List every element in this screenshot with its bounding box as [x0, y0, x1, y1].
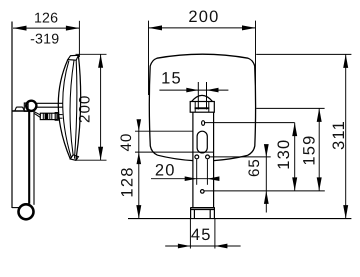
dimension 65 line	[265, 147, 267, 213]
dimension 200 top line	[149, 27, 256, 29]
dimension 159 line	[318, 108, 320, 190]
arm lower line	[37, 106, 63, 108]
rail bottom edge	[12, 207, 20, 209]
wire 20 left extension	[196, 159, 198, 185]
linkage diagonal b	[35, 114, 41, 118]
svg-text:128: 128	[119, 166, 137, 197]
wire bottom hole leader	[204, 190, 324, 192]
svg-text:-319: -319	[30, 32, 59, 48]
holder dome	[190, 102, 214, 113]
bottom hole	[201, 190, 205, 194]
svg-text:200: 200	[188, 8, 219, 26]
hole right of pair	[206, 155, 210, 159]
wire mirror-bottom extension	[135, 151, 214, 153]
wall bracket	[190, 207, 215, 209]
wire 200 bottom extension	[76, 159, 107, 161]
wire 15 tick left	[197, 82, 199, 110]
wire bottom line	[128, 218, 351, 220]
column right line	[213, 112, 215, 207]
wire slot-top extension	[135, 130, 193, 132]
wire 159 top extension	[256, 107, 324, 109]
wall clamp	[24, 103, 28, 111]
svg-text:126: 126	[34, 10, 58, 26]
dimension 126 line	[13, 27, 79, 29]
hole left of pair	[195, 155, 199, 159]
slot	[197, 131, 207, 153]
svg-text:159: 159	[300, 135, 318, 166]
column left line	[192, 112, 194, 207]
mirror front outline	[149, 54, 255, 155]
linkage diagonal a	[34, 111, 42, 115]
dimension 311 line	[345, 54, 347, 218]
wire 311 top extension	[256, 53, 351, 55]
svg-text:15: 15	[161, 69, 182, 87]
wire 200 top extension	[76, 53, 107, 55]
mirror side profile	[58, 60, 70, 159]
wire extension right of 126	[78, 21, 80, 57]
post thick line	[28, 110, 30, 204]
rail top cap	[15, 107, 25, 111]
wire wall line	[11, 22, 13, 209]
dimension 20 line	[151, 178, 219, 180]
dimension 200 side line	[100, 54, 102, 160]
wire 45 right extension	[214, 219, 216, 249]
pivot ball	[26, 101, 36, 111]
svg-text:200: 200	[76, 95, 93, 123]
wire holes leader	[210, 156, 271, 158]
svg-text:130: 130	[275, 139, 293, 170]
wire 20 right extension	[206, 159, 208, 185]
dimension 130 line	[294, 123, 296, 191]
top hole	[202, 121, 205, 126]
wire 15 tick right	[206, 82, 208, 110]
wire 200 left extension	[148, 21, 150, 95]
svg-text:40: 40	[118, 133, 135, 152]
dimension 45 line	[165, 245, 240, 247]
bottom knob circle	[19, 204, 34, 219]
dimension 40-128 line	[138, 122, 140, 218]
swivel cylinder	[40, 113, 57, 119]
wire 45 left extension	[189, 219, 191, 249]
arm upper line	[37, 102, 63, 104]
post thin line	[33, 110, 35, 205]
wire 200 right extension	[255, 21, 257, 100]
svg-text:311: 311	[330, 120, 348, 150]
svg-text:65: 65	[246, 158, 263, 177]
rail top edge	[12, 110, 29, 112]
wire top hole leader	[205, 122, 295, 124]
svg-text:45: 45	[191, 226, 212, 244]
dimension 15 line	[159, 89, 228, 91]
svg-text:20: 20	[155, 162, 176, 180]
